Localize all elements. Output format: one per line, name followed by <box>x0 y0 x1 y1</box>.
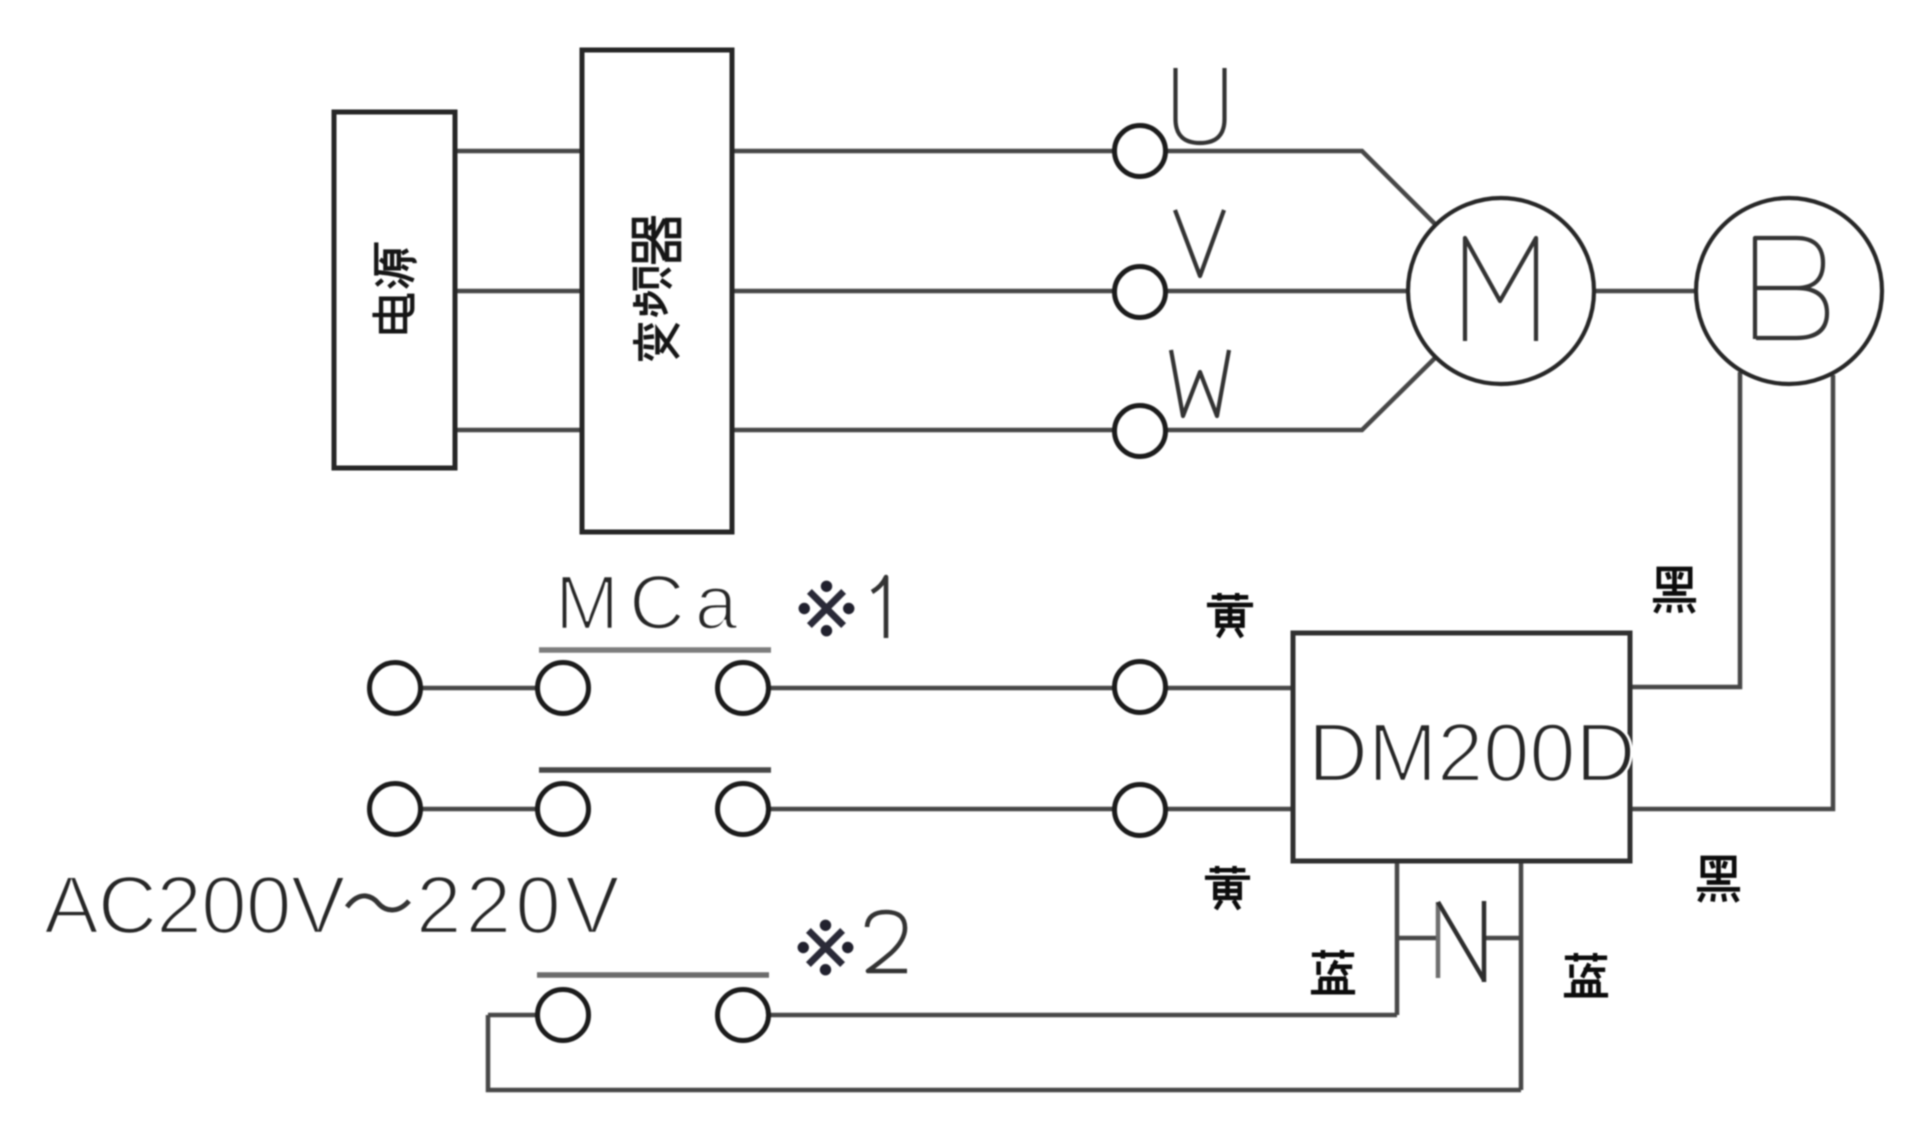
svg-text:220V: 220V <box>416 860 624 951</box>
svg-text:AC200V: AC200V <box>44 860 346 951</box>
svg-text:DM200D: DM200D <box>1308 706 1636 799</box>
svg-text:MCa: MCa <box>555 560 748 646</box>
